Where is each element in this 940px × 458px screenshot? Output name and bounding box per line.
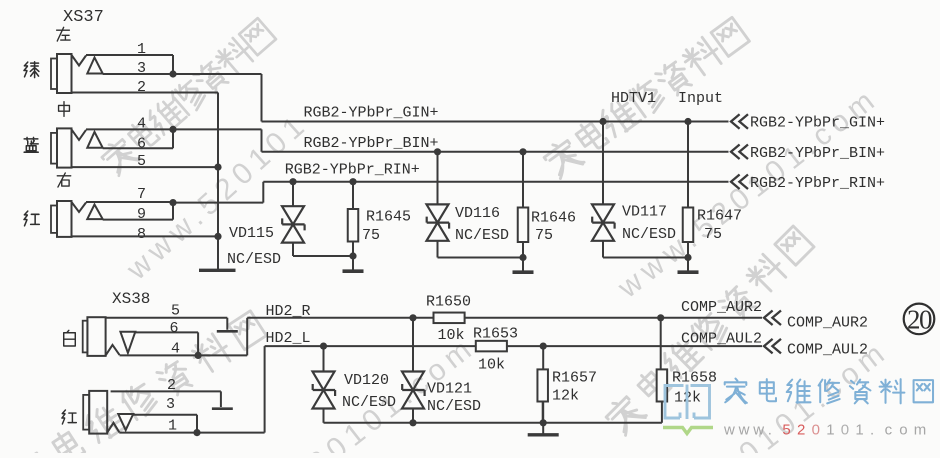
pin 5 wire and switch contact (106, 318, 228, 330)
wire: green signal to GIN net (173, 74, 262, 122)
node: pins 7+9 junction (169, 199, 176, 206)
jack XS38 white channel (pins 5,6,4) (83, 321, 88, 353)
tip contact zigzag (72, 202, 87, 212)
svg-text:.: . (870, 422, 874, 439)
diode VD120 (TVS) (313, 372, 335, 409)
wire: BIN net (262, 151, 729, 153)
wire (352, 182, 354, 209)
ring contact triangle (87, 205, 102, 220)
svg-text:HD2_L: HD2_L (266, 330, 311, 347)
wire (293, 243, 353, 256)
site logo: 家电维修资料网 (725, 379, 747, 404)
wire (323, 346, 325, 371)
wire: GIN net (262, 121, 729, 123)
svg-text:NC/ESD: NC/ESD (455, 227, 509, 244)
resistor R1658 (657, 369, 668, 401)
ring contact wire (103, 73, 173, 75)
svg-text:75: 75 (704, 226, 722, 243)
tip contact zigzag (72, 129, 87, 140)
diode VD121 (TVS) (402, 372, 424, 409)
svg-text:XS37: XS37 (63, 8, 104, 27)
label 左 (left) (57, 27, 70, 41)
off-page arrow GIN (731, 114, 748, 129)
ground (below R1645) (352, 256, 354, 271)
svg-text:R1653: R1653 (473, 326, 518, 343)
svg-text:12k: 12k (552, 388, 579, 405)
label 中 (center) (59, 102, 70, 117)
svg-text:m: m (914, 422, 927, 439)
svg-text:2: 2 (167, 377, 176, 394)
off-page arrow COMP_AUR2 (764, 311, 781, 326)
wire (412, 409, 414, 423)
wire: RIN net (263, 181, 728, 183)
svg-text:RGB2-YPbPr_RIN+: RGB2-YPbPr_RIN+ (750, 175, 885, 192)
node: HD2_R to R1658 (657, 314, 664, 321)
node: R1657 on ground rail (540, 419, 547, 426)
node: HD2_L to R1657 (540, 343, 547, 350)
tip contact wire (86, 201, 173, 203)
svg-text:4: 4 (171, 341, 180, 358)
ring contact wire up to tip (103, 129, 173, 148)
wire: pin8 sleeve to ground bus (72, 235, 219, 237)
svg-text:COMP_AUR2: COMP_AUR2 (787, 315, 868, 332)
svg-text:1: 1 (168, 418, 177, 435)
svg-text:NC/ESD: NC/ESD (227, 251, 281, 268)
wire (542, 402, 545, 423)
ring contact triangle (87, 132, 102, 148)
node: RIN to VD115 (289, 178, 296, 185)
wire (602, 122, 604, 205)
resistor R1645 (348, 209, 359, 242)
wire: HD2_R left segment (247, 317, 433, 319)
wire (437, 152, 439, 205)
svg-text:1: 1 (137, 41, 146, 58)
svg-text:3: 3 (137, 60, 146, 77)
wire (292, 182, 294, 207)
wire (661, 402, 663, 423)
svg-text:VD121: VD121 (427, 381, 472, 398)
svg-text:w: w (738, 422, 750, 439)
svg-text:10k: 10k (438, 327, 465, 344)
wire: ground bus vertical (217, 93, 219, 271)
svg-text:4: 4 (137, 116, 146, 133)
jack XS37 blue channel (pins 4,6,5) (51, 133, 57, 164)
wire (687, 122, 689, 208)
label 绿 (green) (24, 62, 39, 78)
node: HD2_L to VD120 (320, 343, 327, 350)
svg-text:2: 2 (797, 422, 805, 439)
wire: HD2_L right segment (507, 345, 762, 347)
svg-text:w: w (723, 422, 735, 439)
svg-text:o: o (899, 422, 907, 439)
node: BIN to VD116 (434, 148, 441, 155)
pin 3 wire (133, 415, 197, 433)
svg-text:20: 20 (907, 305, 932, 335)
diode VD115 (TVS) (282, 206, 304, 242)
svg-text:0: 0 (812, 422, 820, 439)
node: BIN to R1646 (519, 148, 526, 155)
svg-text:VD117: VD117 (622, 204, 667, 221)
node: pin5 on ground bus (214, 164, 221, 171)
off-page arrow RIN (731, 174, 748, 189)
node: VD121 on ground rail (409, 419, 416, 426)
svg-text:5: 5 (782, 422, 790, 439)
page number 20 (circled) (904, 304, 935, 335)
ground (below R1647) (687, 258, 689, 273)
label 红 (red) (24, 211, 39, 226)
svg-text:0: 0 (841, 422, 849, 439)
svg-text:VD115: VD115 (229, 225, 274, 242)
svg-text:R1650: R1650 (426, 294, 471, 311)
wire (438, 241, 524, 258)
svg-text:6: 6 (170, 320, 179, 337)
node: VD116/R1646 junction (519, 254, 526, 261)
node: pins 1+3 junction (193, 429, 200, 436)
wire (542, 346, 544, 369)
tip contact zigzag (72, 55, 87, 66)
ring contact triangle (87, 58, 102, 74)
wire: pin2 sleeve to ground bus (72, 92, 219, 94)
svg-text:RGB2-YPbPr_BIN+: RGB2-YPbPr_BIN+ (304, 135, 439, 152)
svg-text:RGB2-YPbPr_GIN+: RGB2-YPbPr_GIN+ (304, 105, 439, 122)
svg-text:Input: Input (678, 90, 723, 107)
off-page arrow COMP_AUL2 (764, 339, 781, 354)
wire: pin5 sleeve to ground bus (72, 166, 219, 168)
site logo: book icon (665, 385, 710, 420)
svg-text:75: 75 (362, 227, 380, 244)
label 蓝 (blue) (24, 137, 38, 152)
wire (522, 152, 524, 208)
svg-text:6: 6 (137, 136, 146, 153)
node: RIN to R1645 (349, 178, 356, 185)
pin 2 wire and switch contact (111, 391, 221, 407)
resistor R1650 (434, 313, 465, 324)
resistor R1647 (683, 208, 694, 243)
svg-text:8: 8 (137, 226, 146, 243)
node: GIN to VD117 (599, 118, 606, 125)
wire: red signal to RIN net (173, 182, 263, 203)
ground (below R1646) (522, 258, 524, 273)
svg-text:5: 5 (171, 303, 180, 320)
svg-text:c: c (885, 422, 893, 439)
svg-text:COMP_AUL2: COMP_AUL2 (681, 331, 762, 348)
wire (660, 318, 662, 370)
svg-text:3: 3 (166, 396, 175, 413)
pin 1 wire (119, 432, 264, 434)
tip contact wire (86, 55, 173, 74)
node: pin8 on ground bus (214, 233, 221, 240)
node: pins 4+6 junction (195, 352, 202, 359)
resistor R1657 (537, 369, 548, 401)
svg-text:COMP_AUL2: COMP_AUL2 (787, 342, 868, 359)
node: pins 4+6 junction (169, 126, 176, 133)
node: HD2_R to VD121 (409, 314, 416, 321)
svg-text:9: 9 (137, 206, 146, 223)
svg-text:COMP_AUR2: COMP_AUR2 (681, 299, 762, 316)
svg-text:VD120: VD120 (344, 372, 389, 389)
wire (522, 242, 524, 258)
svg-text:R1647: R1647 (697, 208, 742, 225)
node: tip+ring junction (169, 70, 176, 77)
pin 6 wire (135, 332, 198, 355)
svg-text:RGB2-YPbPr_RIN+: RGB2-YPbPr_RIN+ (285, 162, 420, 179)
ring contact wire up to tip (103, 202, 173, 220)
svg-text:1: 1 (826, 422, 834, 439)
svg-text:R1645: R1645 (366, 209, 411, 226)
diode VD116 (TVS) (427, 204, 449, 240)
wire (352, 242, 354, 257)
svg-text:R1658: R1658 (672, 370, 717, 387)
label 右 (right) (57, 173, 70, 187)
sleeve zigzag (106, 345, 120, 356)
node: VD117/R1647 junction (684, 254, 691, 261)
resistor R1646 (518, 208, 529, 243)
wire: HD2_L left segment (265, 345, 476, 347)
label 白 (white) (64, 330, 76, 346)
svg-text:1: 1 (855, 422, 863, 439)
svg-text:NC/ESD: NC/ESD (427, 398, 481, 415)
wire: audio ground rail (324, 422, 662, 424)
wire: to HD2_L (264, 346, 266, 433)
wire (687, 242, 689, 258)
svg-text:R1657: R1657 (552, 370, 597, 387)
tip contact wire (86, 128, 173, 130)
wire: HD2_R right segment (465, 317, 762, 319)
wire (603, 241, 688, 258)
svg-text:R1646: R1646 (531, 210, 576, 227)
svg-text:RGB2-YPbPr_GIN+: RGB2-YPbPr_GIN+ (750, 115, 885, 132)
svg-text:7: 7 (137, 186, 146, 203)
wire (323, 409, 325, 423)
svg-text:HDTV1: HDTV1 (611, 90, 656, 107)
node: GIN to R1647 (684, 118, 691, 125)
node: VD115/R1645 junction (349, 252, 356, 259)
ring triangle (120, 332, 135, 353)
svg-text:10k: 10k (478, 357, 505, 374)
jack body (51, 59, 57, 90)
wire: to HD2_R (246, 318, 248, 356)
svg-text:VD116: VD116 (455, 205, 500, 222)
resistor R1653 (476, 341, 507, 352)
svg-text:NC/ESD: NC/ESD (342, 394, 396, 411)
wire (412, 318, 414, 372)
ring triangle (118, 414, 133, 430)
svg-text:NC/ESD: NC/ESD (622, 226, 676, 243)
ground (audio) (542, 423, 544, 435)
svg-text:75: 75 (535, 227, 553, 244)
ground (XS37 sleeve bus) (199, 269, 236, 272)
jack XS37 red channel (pins 7,9,8) (51, 206, 57, 233)
jack XS38 red channel (pins 2,3,1) (83, 395, 89, 430)
pin 4 wire (120, 354, 248, 356)
diode VD117 (TVS) (592, 204, 614, 240)
svg-text:w: w (752, 422, 764, 439)
svg-text:RGB2-YPbPr_BIN+: RGB2-YPbPr_BIN+ (750, 145, 885, 162)
svg-text:.: . (768, 422, 772, 439)
sleeve zigzag (107, 423, 119, 433)
label 红 (red) (62, 410, 76, 424)
svg-text:XS38: XS38 (112, 290, 150, 308)
wire: blue signal to BIN net (173, 129, 262, 151)
off-page arrow BIN (731, 145, 748, 160)
